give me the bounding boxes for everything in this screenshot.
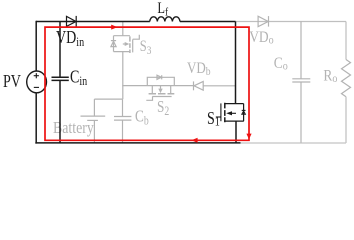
- transistor S2 left lead: [151, 86, 153, 94]
- transistor S3 top bar: [114, 35, 130, 37]
- transistor S3 gate lead: [133, 35, 140, 40]
- transistor S1 body diode bar: [242, 109, 246, 111]
- wire: Cb to bottom rail: [122, 120, 124, 143]
- transistor S2 channel bar: [149, 93, 175, 95]
- transistor S3 channel bar: [129, 36, 131, 53]
- capacitor Cin bottom plate: [52, 79, 69, 81]
- capacitor Cb top plate: [114, 116, 131, 118]
- transistor S3 gate bar: [132, 39, 134, 52]
- source PV circle: [27, 71, 47, 93]
- wire: right vertical lower: [345, 97, 347, 143]
- diode VDin triangle: [67, 16, 77, 26]
- transistor S2 body diode bypass: [147, 77, 174, 85]
- diode VDo triangle: [258, 16, 268, 26]
- transistor S1 arrow stub: [232, 112, 237, 114]
- wire: bottom rail black: [35, 142, 240, 144]
- battery short plate: [87, 119, 98, 121]
- battery negative lead: [93, 120, 95, 142]
- transistor S1 source drop: [235, 121, 237, 143]
- wire: right vertical (output +) upper: [345, 22, 347, 60]
- wire: battery top horizontal: [94, 98, 122, 100]
- PV minus sign: [34, 86, 39, 88]
- transistor S3 arrow stub: [123, 43, 125, 45]
- PV plus sign: [34, 73, 39, 78]
- red arrow left (bottom): [191, 138, 197, 143]
- transistor S3 body diode line: [113, 36, 115, 52]
- red arrow right (top): [111, 25, 117, 30]
- capacitor Co branch lower: [300, 82, 302, 143]
- transistor S1 body diode line: [243, 104, 245, 122]
- resistor Ro zigzag: [342, 60, 351, 97]
- transistor S2 body diode bar: [161, 75, 163, 79]
- wire: gray top rail from node B to output: [236, 21, 347, 23]
- transistor S3 drain riser: [122, 22, 124, 36]
- wire: left vertical upper: [35, 21, 37, 71]
- wire: node B vertical to S1 drain: [235, 22, 237, 104]
- transistor S2 right lead: [170, 86, 172, 94]
- capacitor Co plates: [292, 78, 310, 80]
- transistor S1 channel bar: [224, 103, 226, 123]
- transistor S3 body diode bar: [111, 40, 116, 42]
- transistor S3 body diode triangle: [111, 41, 116, 46]
- transistor S1 gate bar: [220, 103, 222, 121]
- transistor S1 bottom bar: [225, 120, 244, 122]
- wire: gray bottom rail: [241, 142, 347, 144]
- red arrow down (right): [246, 134, 251, 140]
- svg-text:PV: PV: [3, 73, 21, 92]
- wire: Cin branch lower: [59, 80, 61, 142]
- transistor S3 arrow head: [125, 42, 130, 46]
- transistor S1 gate lead: [216, 116, 221, 118]
- wire: S2 main branch: [122, 85, 193, 87]
- diode VDin cathode bar: [75, 16, 77, 27]
- transistor S1 arrow head: [226, 111, 232, 115]
- capacitor Cb bottom plate: [114, 119, 131, 121]
- transistor S3 bottom bar: [114, 51, 130, 53]
- battery long plate: [81, 115, 106, 117]
- inductor Lf: [150, 17, 180, 22]
- capacitor Cin top plate: [52, 76, 69, 78]
- transistor S2 gate lead: [146, 97, 152, 101]
- diode VDb cathode bar: [193, 81, 195, 90]
- capacitor Co branch upper: [300, 22, 302, 79]
- diode VDo cathode bar: [268, 16, 270, 27]
- wire: VDb to S1 drain node: [203, 85, 235, 87]
- battery positive lead: [93, 99, 95, 116]
- wire: top rail PV to Lf: [36, 21, 150, 23]
- transistor S2 arrow stub: [160, 86, 162, 89]
- wire: S3 source drop to Cb: [122, 52, 124, 100]
- wire: battery node to Cb: [122, 99, 124, 116]
- transistor S1 body diode triangle: [242, 111, 246, 114]
- transistor S1 top bar: [225, 103, 244, 105]
- transistor S2 arrow head: [158, 89, 162, 94]
- wire: red loop: [45, 27, 249, 140]
- transistor S2 gate bar: [152, 96, 171, 98]
- transistor S2 body diode triangle: [157, 75, 161, 79]
- diode VDb triangle: [194, 82, 203, 91]
- wire: Cin branch upper: [59, 22, 61, 78]
- wire: top rail Lf to node B: [180, 21, 236, 23]
- svg-text:Battery: Battery: [53, 119, 94, 137]
- wire: left vertical lower: [35, 93, 37, 144]
